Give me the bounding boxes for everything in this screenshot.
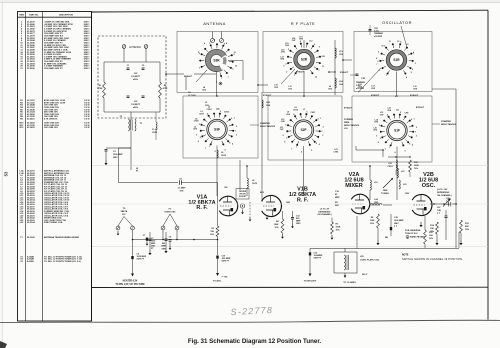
svg-text:3: 3 <box>236 135 237 137</box>
svg-text:DEPENDING: DEPENDING <box>437 192 450 194</box>
svg-text:6: 6 <box>232 69 233 71</box>
svg-text:EYELET: EYELET <box>344 108 353 110</box>
svg-text:7UH: 7UH <box>437 210 442 212</box>
svg-text:4.7K OHM 5%: 4.7K OHM 5% <box>44 118 58 121</box>
svg-text:L3 CH12: L3 CH12 <box>188 95 196 97</box>
svg-text:CH5: CH5 <box>281 51 285 53</box>
svg-text:DEPENDING: DEPENDING <box>319 211 331 213</box>
svg-text:CH10: CH10 <box>194 121 199 123</box>
svg-text:S1R: S1R <box>393 58 400 62</box>
svg-text:WIRE: WIRE <box>344 122 350 124</box>
svg-text:2: 2 <box>198 52 199 54</box>
svg-text:10%: 10% <box>274 227 278 229</box>
svg-text:10: 10 <box>323 56 325 58</box>
svg-text:BOV: BOV <box>260 192 265 194</box>
svg-text:CH7: CH7 <box>280 129 284 131</box>
svg-text:2: 2 <box>380 138 381 140</box>
svg-text:CH6: CH6 <box>285 45 289 47</box>
svg-text:CH13: CH13 <box>224 112 229 114</box>
svg-text:3: 3 <box>209 43 210 45</box>
svg-text:22-2696: 22-2696 <box>27 68 35 70</box>
svg-text:ANTENNA: ANTENNA <box>129 46 141 49</box>
svg-text:10%: 10% <box>210 234 214 236</box>
svg-text:7: 7 <box>376 64 377 66</box>
svg-text:STAMPED: STAMPED <box>441 120 452 123</box>
svg-text:CH8: CH8 <box>281 121 285 123</box>
svg-text:CH9: CH9 <box>405 113 409 115</box>
svg-text:MIXER: MIXER <box>345 183 362 189</box>
svg-text:L7: L7 <box>303 109 305 111</box>
svg-text:56K: 56K <box>465 226 469 228</box>
svg-text:1: 1 <box>227 77 228 79</box>
svg-text:5,000: 5,000 <box>356 85 361 87</box>
svg-text:5: 5 <box>400 112 401 114</box>
svg-text:L11: L11 <box>396 109 399 111</box>
svg-text:8: 8 <box>376 58 377 60</box>
svg-text:(-6.75 -10V: (-6.75 -10V <box>437 189 448 191</box>
svg-text:C7: C7 <box>143 235 145 237</box>
svg-text:6: 6 <box>395 152 396 154</box>
svg-text:9: 9 <box>319 46 320 48</box>
svg-text:ITEM: ITEM <box>19 15 24 17</box>
svg-text:7: 7 <box>235 131 236 133</box>
svg-text:132V: 132V <box>405 193 410 195</box>
svg-text:S2R: S2R <box>301 58 308 62</box>
svg-text:CH9: CH9 <box>193 129 197 131</box>
svg-text:1: 1 <box>320 118 321 120</box>
svg-text:TRIMMER: TRIMMER <box>356 82 365 84</box>
svg-text:1000 MMF GMV F.T.: 1000 MMF GMV F.T. <box>44 68 63 70</box>
svg-text:CH11: CH11 <box>334 152 339 154</box>
svg-text:EYELET: EYELET <box>340 72 349 74</box>
svg-text:7: 7 <box>415 132 416 134</box>
svg-text:2: 2 <box>323 126 324 128</box>
svg-text:CH2: CH2 <box>274 87 278 89</box>
svg-text:9: 9 <box>378 51 379 53</box>
svg-text:TO BH 220V: TO BH 220V <box>304 281 317 283</box>
svg-text:10%: 10% <box>414 168 418 170</box>
svg-text:100K: 100K <box>336 227 341 229</box>
svg-text:1: 1 <box>413 52 414 54</box>
svg-text:10K: 10K <box>430 228 434 230</box>
svg-text:MMF: MMF <box>335 197 340 199</box>
svg-text:800: 800 <box>162 243 165 245</box>
svg-text:9: 9 <box>376 135 377 137</box>
svg-text:R F PLATE: R F PLATE <box>291 21 315 26</box>
svg-text:2: 2 <box>286 138 287 140</box>
svg-text:1500 MMF: 1500 MMF <box>113 154 123 156</box>
svg-text:1.5 MMF: 1.5 MMF <box>178 187 187 189</box>
svg-text:2: 2 <box>236 126 237 128</box>
svg-text:R.F.: R.F. <box>122 214 126 216</box>
svg-text:GMV FT: GMV FT <box>137 259 145 261</box>
svg-text:3: 3 <box>285 124 286 126</box>
svg-text:CH3: CH3 <box>288 88 292 90</box>
svg-text:105V: 105V <box>286 202 291 204</box>
svg-text:CH6: CH6 <box>374 122 378 124</box>
svg-text:3: 3 <box>411 72 412 74</box>
svg-text:FINE TUNING COIL: FINE TUNING COIL <box>44 222 64 224</box>
svg-text:6: 6 <box>318 118 319 120</box>
svg-text:ON CHANNEL): ON CHANNEL) <box>437 194 452 197</box>
svg-text:5: 5 <box>220 111 221 113</box>
svg-text:TUNING: TUNING <box>381 193 389 195</box>
svg-text:SWITCH SHOWN IN CHANNEL 13 POS: SWITCH SHOWN IN CHANNEL 13 POSITION. <box>402 257 463 261</box>
svg-text:53: 53 <box>4 171 9 176</box>
svg-text:15K: 15K <box>210 231 214 233</box>
svg-text:STAMPED: STAMPED <box>260 122 271 125</box>
svg-text:OSCILLATOR: OSCILLATOR <box>382 20 412 25</box>
svg-text:6: 6 <box>231 118 232 120</box>
svg-text:8: 8 <box>378 142 379 144</box>
svg-text:L12: L12 <box>309 41 312 43</box>
svg-text:GMV: GMV <box>296 223 301 225</box>
svg-text:NOTE: NOTE <box>402 255 409 257</box>
svg-text:9: 9 <box>196 134 197 136</box>
svg-text:12: 12 <box>235 66 237 68</box>
svg-text:R. F.: R. F. <box>297 197 309 203</box>
svg-text:1: 1 <box>209 146 210 148</box>
svg-text:2: 2 <box>285 63 286 65</box>
svg-text:CH9: CH9 <box>286 114 290 116</box>
svg-text:1/2 WATT: 1/2 WATT <box>131 103 141 106</box>
svg-text:S3R: S3R <box>213 59 220 63</box>
svg-text:C16: C16 <box>447 199 450 201</box>
svg-text:1/2 WATT: 1/2 WATT <box>131 75 141 78</box>
svg-text:8: 8 <box>284 142 285 144</box>
svg-text:8: 8 <box>409 144 410 146</box>
svg-text:5: 5 <box>311 150 312 152</box>
svg-text:3: 3 <box>283 65 284 67</box>
svg-text:1/2 W: 1/2 W <box>84 119 89 121</box>
svg-text:8: 8 <box>198 141 199 143</box>
svg-text:CH3: CH3 <box>371 88 375 90</box>
svg-text:13: 13 <box>406 44 408 46</box>
svg-text:CH13: CH13 <box>221 155 227 157</box>
svg-text:1: 1 <box>234 117 235 119</box>
svg-text:1: 1 <box>294 75 295 77</box>
svg-text:DESCRIPTION: DESCRIPTION <box>59 15 73 17</box>
svg-text:OSC.: OSC. <box>422 183 436 189</box>
svg-text:7: 7 <box>291 149 292 151</box>
svg-text:FORMED: FORMED <box>344 119 354 121</box>
svg-text:TO I.F. AMPL.: TO I.F. AMPL. <box>343 281 357 284</box>
svg-text:10K: 10K <box>429 235 433 237</box>
svg-text:±20%: ±20% <box>133 79 138 81</box>
svg-text:TION OF B.V.: TION OF B.V. <box>405 233 418 235</box>
svg-text:EYELET: EYELET <box>410 95 419 97</box>
svg-text:95-2024: 95-2024 <box>27 221 35 224</box>
svg-text:10K OHM 10%: 10K OHM 10% <box>44 127 58 129</box>
svg-text:CH8: CH8 <box>387 110 391 112</box>
svg-text:EYELET: EYELET <box>263 95 272 97</box>
svg-text:8: 8 <box>226 43 227 45</box>
svg-text:L5: L5 <box>205 102 207 104</box>
svg-text:9: 9 <box>283 135 284 137</box>
svg-text:5: 5 <box>233 54 234 56</box>
svg-text:GMV FT: GMV FT <box>222 261 230 263</box>
svg-text:L1B: L1B <box>266 102 270 104</box>
svg-text:HEATER 6.3V: HEATER 6.3V <box>123 279 138 282</box>
svg-text:3: 3 <box>379 125 380 127</box>
svg-text:7: 7 <box>321 131 322 133</box>
svg-text:6: 6 <box>215 151 216 153</box>
svg-text:10: 10 <box>381 46 383 48</box>
svg-text:CH2: CH2 <box>202 89 206 91</box>
svg-text:10: 10 <box>234 52 236 54</box>
svg-text:7: 7 <box>205 148 206 150</box>
svg-text:220 V: 220 V <box>362 274 368 276</box>
svg-text:FOR OBSERVA-: FOR OBSERVA- <box>405 229 421 232</box>
svg-text:7: 7 <box>318 70 319 72</box>
svg-text:TO PIN 1 OF V17 PIX TUBE: TO PIN 1 OF V17 PIX TUBE <box>115 284 145 286</box>
svg-text:CH11: CH11 <box>199 113 204 115</box>
svg-text:CONV. PLATE COIL: CONV. PLATE COIL <box>360 259 380 262</box>
svg-text:GMV: GMV <box>161 248 166 250</box>
svg-text:8: 8 <box>229 143 230 145</box>
svg-text:C8: C8 <box>169 236 171 238</box>
svg-text:2: 2 <box>286 71 287 73</box>
svg-text:CH7: CH7 <box>380 114 384 116</box>
svg-text:FINE: FINE <box>383 190 388 192</box>
svg-text:100K: 100K <box>274 224 279 226</box>
svg-text:S3F: S3F <box>214 128 220 132</box>
svg-text:CH9: CH9 <box>205 105 209 107</box>
svg-text:3: 3 <box>384 46 385 48</box>
svg-text:1: 1 <box>386 75 387 77</box>
svg-text:7: 7 <box>221 78 222 80</box>
svg-text:HORIZ OSC: HORIZ OSC <box>164 212 176 214</box>
svg-text:A-6850: A-6850 <box>27 260 35 263</box>
svg-text:1000 MMF: 1000 MMF <box>394 220 404 222</box>
svg-text:6BK7A: 6BK7A <box>121 210 128 213</box>
svg-text:CH5: CH5 <box>373 130 377 132</box>
svg-text:3: 3 <box>416 136 417 138</box>
svg-text:6: 6 <box>301 152 302 154</box>
svg-text:10%: 10% <box>370 223 374 225</box>
svg-text:2: 2 <box>199 53 200 55</box>
svg-text:12: 12 <box>397 41 399 43</box>
svg-text:470K: 470K <box>163 87 168 90</box>
svg-text:6: 6 <box>411 119 412 121</box>
svg-text:1: 1 <box>199 68 200 70</box>
svg-text:EYELET: EYELET <box>371 95 380 97</box>
svg-text:L1A: L1A <box>339 80 343 83</box>
svg-text:2: 2 <box>377 61 378 63</box>
svg-text:TO AGC: TO AGC <box>213 280 222 283</box>
svg-text:7: 7 <box>385 149 386 151</box>
svg-text:2: 2 <box>416 127 417 129</box>
svg-text:EYELET: EYELET <box>416 107 425 109</box>
svg-text:63-3451: 63-3451 <box>27 118 35 121</box>
svg-text:ON CHANNEL): ON CHANNEL) <box>318 213 332 216</box>
svg-text:100K: 100K <box>370 220 375 222</box>
svg-text:CH13: CH13 <box>252 183 258 185</box>
svg-text:1: 1 <box>414 118 415 120</box>
svg-text:11: 11 <box>389 41 391 43</box>
svg-text:63-3453: 63-3453 <box>27 126 35 129</box>
svg-text:ANTENNA TRANSFORMER ASSEM.: ANTENNA TRANSFORMER ASSEM. <box>44 236 80 239</box>
svg-text:1/2 W: 1/2 W <box>84 127 89 129</box>
svg-text:11: 11 <box>322 66 324 68</box>
svg-text:1: 1 <box>389 147 390 149</box>
svg-text:CH12: CH12 <box>207 109 212 111</box>
svg-text:10%: 10% <box>429 238 433 240</box>
svg-text:56K: 56K <box>335 205 339 207</box>
svg-text:S1F: S1F <box>394 129 400 133</box>
svg-text:12: 12 <box>315 77 317 79</box>
svg-text:CH5: CH5 <box>328 88 332 90</box>
svg-text:CH7: CH7 <box>292 40 296 42</box>
svg-text:±10 MMF: ±10 MMF <box>356 88 365 90</box>
svg-text:10%: 10% <box>179 190 183 192</box>
svg-text:GMV: GMV <box>394 223 399 225</box>
svg-text:2: 2 <box>200 137 201 139</box>
svg-text:EYELET: EYELET <box>184 76 193 78</box>
svg-text:10%: 10% <box>336 230 340 232</box>
svg-text:8: 8 <box>316 143 317 145</box>
svg-text:TO: TO <box>123 208 126 210</box>
svg-text:ANTENNA: ANTENNA <box>203 21 226 26</box>
svg-text:TU. SEL. 12 POSITN TUNER (CH.: TU. SEL. 12 POSITN TUNER (CH. 2-6) <box>44 261 81 263</box>
svg-text:6: 6 <box>412 69 413 71</box>
svg-text:470K: 470K <box>98 87 103 90</box>
svg-text:5: 5 <box>314 44 315 46</box>
svg-text:C5: C5 <box>120 116 122 118</box>
svg-text:100K: 100K <box>414 165 419 167</box>
svg-text:CH11: CH11 <box>311 112 316 114</box>
svg-text:±20%: ±20% <box>133 107 138 109</box>
svg-text:CH10: CH10 <box>293 109 298 111</box>
svg-text:10%: 10% <box>465 229 469 231</box>
svg-text:3: 3 <box>288 49 289 51</box>
svg-text:CH8: CH8 <box>299 39 303 41</box>
svg-text:EYELET: EYELET <box>296 72 305 74</box>
svg-text:USE 3: USE 3 <box>84 68 91 70</box>
svg-text:CH13: CH13 <box>387 166 393 168</box>
svg-text:GMV FT: GMV FT <box>314 258 322 260</box>
svg-text:±10 MMF: ±10 MMF <box>374 36 383 38</box>
svg-text:(-2 TO -9V: (-2 TO -9V <box>320 209 330 211</box>
svg-text:PART NO.: PART NO. <box>29 14 39 17</box>
svg-text:BAND PASSES: BAND PASSES <box>410 236 425 239</box>
svg-text:C1R: C1R <box>361 78 366 80</box>
svg-text:2: 2 <box>415 63 416 65</box>
svg-text:L2A: L2A <box>216 107 220 110</box>
svg-text:INDUCTANCES: INDUCTANCES <box>441 123 457 126</box>
svg-text:Fig. 31 Schematic Diagram 12: Fig. 31 Schematic Diagram 12 Position Tu… <box>188 338 322 345</box>
svg-text:SOCKET: SOCKET <box>239 196 247 198</box>
svg-text:S2F: S2F <box>301 128 307 132</box>
svg-text:INDUCTANCES: INDUCTANCES <box>344 124 360 127</box>
svg-text:INDUCTANCES: INDUCTANCES <box>260 125 276 128</box>
svg-text:GMV: GMV <box>113 157 118 159</box>
svg-text:3: 3 <box>322 135 323 137</box>
svg-text:1: 1 <box>296 147 297 149</box>
svg-text:5: 5 <box>306 112 307 114</box>
svg-text:5: 5 <box>225 150 226 152</box>
svg-text:3: 3 <box>199 124 200 126</box>
svg-text:5: 5 <box>405 151 406 153</box>
svg-text:95-2025: 95-2025 <box>27 237 35 239</box>
svg-text:R. F.: R. F. <box>196 205 208 211</box>
svg-text:CH12: CH12 <box>152 132 158 134</box>
